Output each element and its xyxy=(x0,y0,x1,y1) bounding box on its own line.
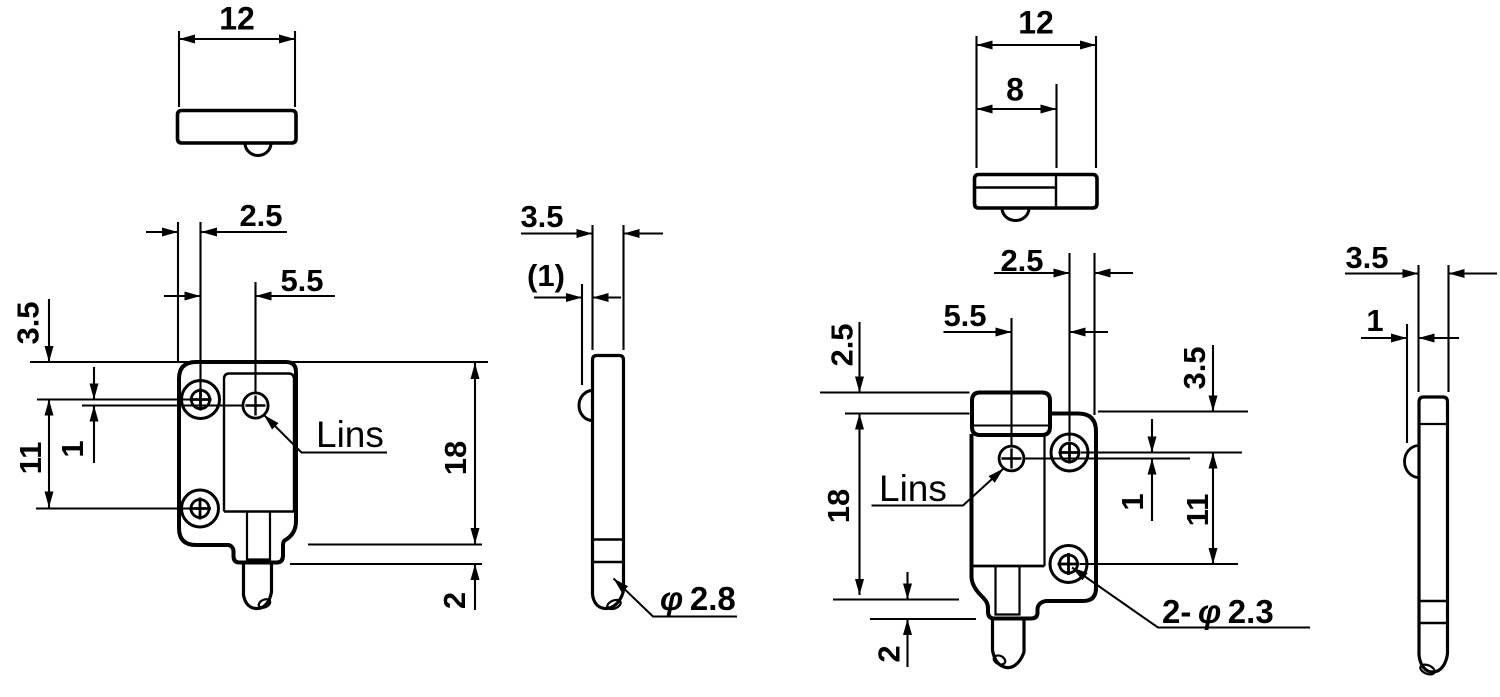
dim 12 R ext lines xyxy=(977,36,1097,168)
dim 2.5 R ext lines xyxy=(1070,253,1095,441)
dim 11 L arrowheads xyxy=(45,400,54,508)
dim 3.5 side R ext lines xyxy=(1419,265,1449,392)
svg-text:8: 8 xyxy=(1006,72,1024,108)
svg-text:(1): (1) xyxy=(527,258,565,293)
dim 2.5 L ext lines xyxy=(178,222,201,411)
Lins label L arrowhead xyxy=(264,415,279,430)
front view R strain relief xyxy=(996,566,1020,615)
side view R bottom arc xyxy=(1419,654,1448,672)
dim 18 R arrowheads xyxy=(855,414,864,596)
lens cross L xyxy=(246,396,266,416)
dim 5.5 R arrowheads xyxy=(996,328,1086,337)
dim 8 ext line xyxy=(1055,84,1057,168)
bottom screw extension R xyxy=(1080,563,1238,565)
svg-text:2: 2 xyxy=(437,592,472,609)
dim 18 L arrowheads xyxy=(471,363,480,544)
top view R inner vline xyxy=(1055,175,1057,208)
screw top-left outer xyxy=(182,381,220,419)
svg-text:1: 1 xyxy=(55,440,90,457)
screw top-left inner xyxy=(191,390,209,408)
side view R cap line xyxy=(1419,423,1448,425)
dim 1 L arrowheads xyxy=(90,384,99,422)
dim 3.5 L line xyxy=(48,299,50,362)
svg-text:1: 1 xyxy=(1115,493,1150,510)
body bottom extension R xyxy=(833,598,959,600)
svg-text:5.5: 5.5 xyxy=(943,298,986,333)
dim 1 side R dimension line xyxy=(1361,337,1459,339)
svg-text:3.5: 3.5 xyxy=(520,199,563,234)
dim 8 arrowheads xyxy=(977,105,1057,114)
dim 5.5 L dimension line xyxy=(164,295,335,297)
lens cross R xyxy=(1002,449,1022,469)
dim 12 R arrowheads xyxy=(977,41,1097,50)
body top extension R right xyxy=(1098,410,1248,412)
dim 2.5 left R arrowhead xyxy=(855,377,864,393)
dim 2.5 L arrowheads xyxy=(162,228,217,237)
svg-text:5.5: 5.5 xyxy=(280,263,323,298)
dim 3.5 side L dimension line xyxy=(521,232,663,234)
lens center extension R xyxy=(1024,457,1190,459)
body top extension R left xyxy=(845,412,970,414)
screw bottom-right outer xyxy=(1050,546,1087,583)
2-phi2.3 arrowhead xyxy=(1072,568,1088,581)
screw bottom-right cross xyxy=(1058,553,1080,575)
dim 3.5 R arrowhead xyxy=(1209,396,1218,412)
side view R cable lines xyxy=(1419,601,1448,623)
side view R outline xyxy=(1419,397,1448,655)
dim (1) dimension line xyxy=(534,296,621,298)
lens circle L xyxy=(243,393,268,418)
dim 18 R line xyxy=(858,414,860,596)
svg-text:18: 18 xyxy=(821,489,856,523)
front view R step block xyxy=(972,393,1050,436)
dim 3.5 L arrowhead xyxy=(45,346,54,362)
dim (1) arrowheads xyxy=(566,293,609,302)
dim 18 L ext lines xyxy=(290,545,482,565)
front view L cable end ellipse xyxy=(257,598,271,610)
dim 3.5 side L ext lines xyxy=(593,225,624,350)
front view L sensor window xyxy=(224,374,294,512)
screw top-left cross xyxy=(190,389,212,411)
dim 1 R arrowheads xyxy=(1148,437,1157,475)
dim 2.5 left R line xyxy=(858,322,860,393)
step top extension R xyxy=(820,391,970,393)
dim (1) ext line xyxy=(581,284,583,385)
front view R cable xyxy=(993,619,1025,668)
side view L bottom arc xyxy=(593,591,624,609)
dim 1 L lines xyxy=(93,367,95,463)
dim 8 dimension line xyxy=(977,108,1057,110)
front view R step inner line xyxy=(973,425,1049,427)
dim 2 L arrowhead xyxy=(471,564,480,580)
svg-text:2- φ 2.3: 2- φ 2.3 xyxy=(1162,593,1274,630)
svg-text:3.5: 3.5 xyxy=(1177,346,1212,389)
dim 11 L line xyxy=(48,400,50,508)
front view L body outline xyxy=(179,362,296,563)
dim 12 L dimension line xyxy=(179,38,295,40)
screw bottom-right inner xyxy=(1060,555,1078,573)
svg-text:12: 12 xyxy=(1018,5,1054,41)
dim 5.5 L ext line xyxy=(254,282,256,394)
dim 5.5 R ext line xyxy=(1010,318,1012,446)
front view R cable end ellipse xyxy=(992,654,1006,667)
dim 5.5 R dimension line xyxy=(944,331,1109,333)
svg-text:2: 2 xyxy=(872,645,907,662)
dim 11 R arrowheads xyxy=(1209,453,1218,565)
dim 12 L ext lines xyxy=(179,31,295,107)
Lins label L underline and leader xyxy=(264,415,387,453)
dim 1 side R arrowheads xyxy=(1391,334,1435,343)
side view L cable end ellipse xyxy=(606,598,622,611)
lens center extension L xyxy=(82,404,244,406)
dim 12 L arrowheads xyxy=(179,35,295,44)
top view L lens bump xyxy=(245,143,271,156)
body top extension line L xyxy=(30,361,488,363)
svg-text:Lins: Lins xyxy=(316,414,384,455)
side view L lens bump xyxy=(579,391,593,421)
phi 2.8 arrowhead xyxy=(614,579,629,593)
screw top-right inner xyxy=(1060,443,1079,462)
dim 18 L line xyxy=(474,363,476,544)
dim 3.5 R line xyxy=(1212,345,1214,412)
Lins label R arrowhead xyxy=(989,469,1004,483)
side view R lens bump xyxy=(1405,446,1420,478)
svg-text:12: 12 xyxy=(219,1,255,37)
side view L cable lines xyxy=(593,540,624,563)
dim 2.5 R arrowheads xyxy=(1054,269,1111,278)
bottom screw center extension L xyxy=(36,507,190,509)
dim 2 L line xyxy=(474,564,476,610)
screw bottom-left outer xyxy=(182,490,219,527)
side view R cable end ellipse xyxy=(1419,663,1436,677)
dim 5.5 L arrowheads xyxy=(185,292,272,301)
svg-text:2.5: 2.5 xyxy=(239,198,282,233)
svg-text:11: 11 xyxy=(1180,494,1215,527)
front view L cable xyxy=(244,563,272,609)
screw center extension R xyxy=(1081,451,1242,453)
front view R window bottom line xyxy=(974,565,1045,568)
dim 1 side R ext line xyxy=(1406,324,1408,443)
dim 12 R dimension line xyxy=(977,44,1097,46)
front view R body outline xyxy=(972,414,1097,619)
screw bottom-left inner xyxy=(191,500,209,518)
dim 2.5 L dimension line xyxy=(146,231,287,233)
svg-text:3.5: 3.5 xyxy=(11,301,46,344)
svg-text:Lins: Lins xyxy=(879,468,947,509)
screw top-right outer xyxy=(1051,434,1088,471)
svg-text:18: 18 xyxy=(438,441,473,475)
dim 2.5 R dimension line xyxy=(994,272,1133,274)
dim 2 R arrowheads xyxy=(903,584,912,636)
dim 3.5 side R arrowheads xyxy=(1403,269,1465,278)
top view R inner hline xyxy=(975,186,1056,188)
dim 3.5 side L arrowheads xyxy=(577,229,640,238)
svg-text:2.5: 2.5 xyxy=(1000,243,1043,278)
Lins label R underline and leader xyxy=(872,469,1004,506)
svg-text:2.5: 2.5 xyxy=(825,323,860,366)
dim 3.5 side R dimension line xyxy=(1345,272,1497,274)
lens circle R xyxy=(999,446,1024,471)
dim 11 R line xyxy=(1212,453,1214,565)
top view L body xyxy=(178,111,297,144)
svg-text:11: 11 xyxy=(13,442,48,475)
side view L outline xyxy=(593,356,624,596)
dim 2 R lines xyxy=(906,572,908,667)
svg-text:3.5: 3.5 xyxy=(1345,240,1388,275)
front view L window bottom line xyxy=(224,510,294,513)
top view R body xyxy=(975,175,1098,209)
svg-text:φ 2.8: φ 2.8 xyxy=(660,580,736,617)
front view L strain relief xyxy=(247,512,270,560)
screw bottom-left cross xyxy=(189,498,211,520)
2-phi2.3 leader xyxy=(1072,568,1310,628)
svg-text:1: 1 xyxy=(1366,303,1383,338)
neck bottom extension R xyxy=(870,618,976,620)
front view R window right edge xyxy=(1043,436,1045,566)
screw center extension L xyxy=(37,398,190,400)
phi 2.8 leader xyxy=(614,579,738,617)
screw top-right cross xyxy=(1059,442,1081,464)
dim 1 R lines xyxy=(1151,419,1153,521)
top view R lens bump xyxy=(1002,208,1029,221)
